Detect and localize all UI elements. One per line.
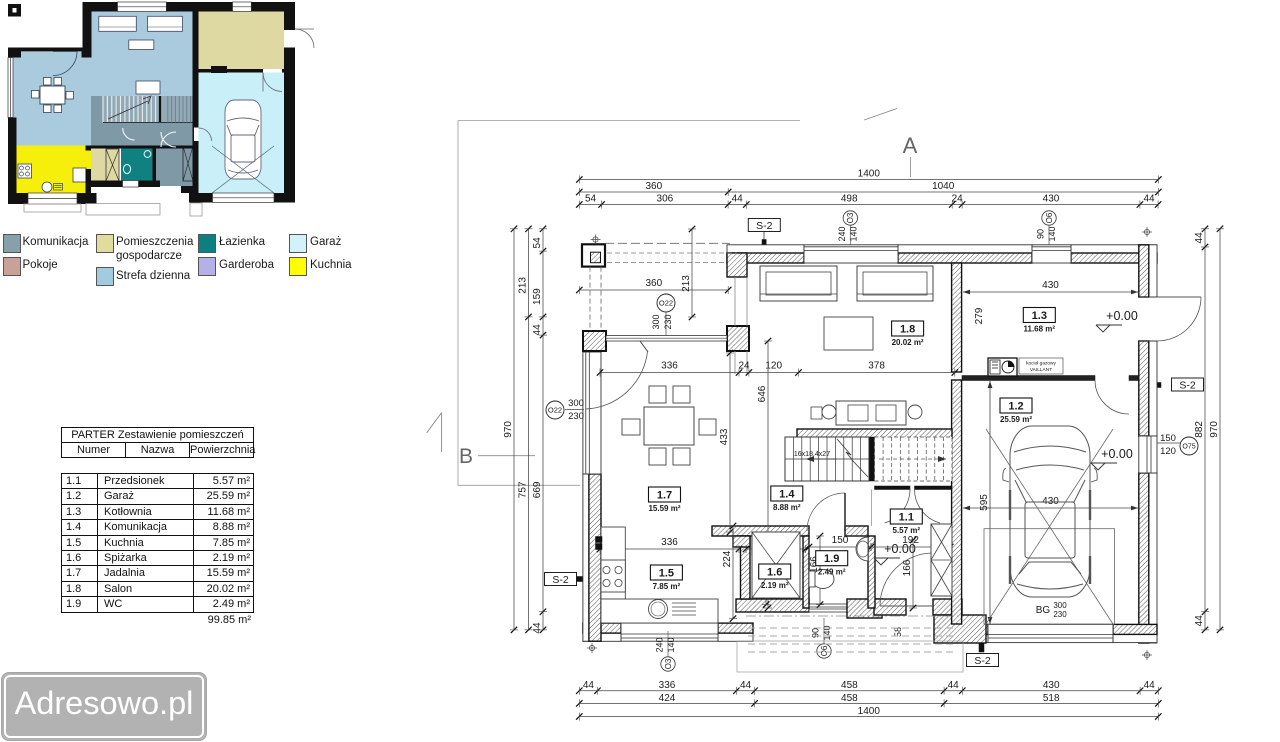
window O22 west jadalnia (583, 352, 601, 474)
svg-text:O22: O22 (659, 299, 673, 308)
jadalnia door leaf+arc (640, 341, 648, 352)
svg-text:15.59 m²: 15.59 m² (648, 504, 680, 513)
spizarka door gap arc (751, 536, 753, 556)
mini pergola post (8, 4, 21, 17)
svg-text:+0.00: +0.00 (1101, 447, 1133, 461)
svg-text:1.4: 1.4 (779, 489, 795, 501)
dimension chain top total 1400 (579, 179, 1158, 181)
svg-text:44: 44 (532, 324, 543, 336)
exterior wall south garage (962, 634, 988, 642)
stove burners (601, 560, 625, 592)
section line B-B (427, 413, 442, 433)
dimension chain bottom detail (579, 690, 1158, 692)
window label O22 north jadalnia (657, 294, 675, 312)
room label 1.3 Kotlownia (1023, 308, 1055, 323)
svg-text:+0.00: +0.00 (1106, 309, 1138, 323)
room label 1.4 Komunikacja (771, 486, 803, 501)
dimension chain left 213/757 (528, 229, 530, 630)
room label 1.5 Kuchnia (650, 565, 682, 580)
section marker S-2 right (1172, 378, 1204, 391)
wall kitchen/spizarka (741, 536, 751, 599)
mini wall south spizarka/lazienka (91, 181, 160, 188)
dim jadalnia 360 (579, 289, 728, 291)
dimension chain top detail (579, 204, 1158, 206)
mini: lazienka fixtures (123, 164, 130, 173)
dim kitchen 336 (600, 548, 739, 550)
mini door kotlownia east arc (295, 29, 314, 48)
dim 433 vertical jadalnia (729, 353, 731, 532)
pergola post mid-right (727, 326, 749, 351)
legend swatch Garaz (289, 234, 307, 253)
kociol label box (1019, 358, 1063, 374)
dim salon chain 336/24/120/378 (600, 372, 955, 374)
exterior wall north east segment (1071, 245, 1157, 253)
mini: furniture sofas salon (99, 16, 137, 31)
mini wall lazienka/przedsionek (153, 148, 157, 182)
room label 1.6 Spizarka (759, 564, 791, 579)
pergola dashed outline (605, 242, 730, 244)
dimension chain left total 970 (513, 229, 515, 630)
mini jadalnia west window (8, 58, 13, 118)
svg-text:230: 230 (568, 411, 584, 422)
mini: kitchen stove (18, 164, 32, 178)
interior wall over spizarka/wc (y526) (712, 526, 809, 536)
svg-text:279: 279 (974, 307, 985, 324)
mini window kotlownia north (233, 2, 252, 12)
mini wall west lower (8, 118, 17, 205)
dimension chain right 44/882/44 (1204, 229, 1206, 630)
svg-text:518: 518 (1043, 693, 1060, 704)
svg-text:44: 44 (1194, 232, 1205, 244)
corner mark bottom-left (589, 645, 594, 650)
window label O6 bottom wc (817, 644, 831, 658)
exterior wall east lower (1149, 473, 1157, 643)
svg-text:44: 44 (948, 680, 960, 691)
window label O6 top (1042, 211, 1056, 225)
dim 166 wc (819, 536, 821, 605)
legend swatch Strefa dzienna (96, 267, 114, 286)
mini: dining table (40, 86, 65, 104)
svg-text:1.5: 1.5 (659, 568, 674, 580)
window O6 wc south (809, 604, 847, 612)
svg-text:213: 213 (518, 277, 529, 294)
legend swatch Garderoba (198, 257, 216, 276)
dim kotlownia 430 (963, 291, 1138, 293)
dim wc 150 (809, 546, 871, 548)
dining table (644, 407, 694, 445)
svg-text:44: 44 (1194, 615, 1205, 627)
mini: room fill kuchnia (17, 146, 92, 194)
mini: car (225, 100, 261, 179)
mini colored floor plan (0, 0, 330, 230)
svg-text:336: 336 (661, 361, 678, 372)
room label 1.7 Jadalnia (649, 487, 681, 502)
svg-text:2.49 m²: 2.49 m² (818, 568, 846, 577)
svg-text:58: 58 (893, 627, 903, 637)
svg-text:306: 306 (657, 194, 674, 205)
interior wall garage west (952, 380, 962, 624)
window label O3 top (843, 211, 857, 225)
svg-text:430: 430 (1042, 280, 1059, 291)
svg-text:378: 378 (868, 361, 885, 372)
svg-text:25.59 m²: 25.59 m² (1000, 415, 1032, 424)
svg-text:150: 150 (832, 535, 849, 546)
mini post jadalnia corners (8, 48, 21, 58)
svg-text:S-2: S-2 (756, 220, 773, 232)
room label 1.2 Garaz (1000, 398, 1032, 413)
mini window south kuchnia (28, 193, 77, 204)
stairs arrow (837, 439, 868, 477)
mini wall salon/kotlownia divider (193, 12, 199, 194)
svg-text:2.19 m²: 2.19 m² (761, 581, 789, 590)
exterior wall north mid segment (898, 245, 1032, 253)
svg-text:166: 166 (902, 559, 913, 576)
spizarka shelving X (752, 532, 800, 598)
svg-text:300: 300 (651, 314, 661, 329)
svg-text:240: 240 (655, 637, 665, 652)
mini: tv unit (136, 81, 160, 94)
sofa 1 salon (760, 266, 837, 301)
exterior wall south kitchen (583, 633, 621, 641)
door kotlownia east: leaf and arc (1157, 296, 1201, 298)
window label O75 garage (1180, 437, 1198, 455)
wall notch block (733, 536, 750, 547)
dim 166 przedsionek (912, 540, 914, 608)
corner mark bottom-right (1144, 652, 1149, 657)
svg-text:498: 498 (841, 194, 858, 205)
back terrace dashes (737, 641, 963, 672)
mini wall kuchnia east bits (86, 146, 92, 151)
svg-text:300: 300 (568, 398, 584, 409)
window/terrace door O3 kitchen south (621, 623, 718, 641)
mini kociol box (211, 66, 227, 73)
svg-text:595: 595 (979, 494, 990, 511)
exterior wall east upper (1149, 245, 1157, 297)
mini: room fill hall komunikacja (91, 96, 193, 148)
wall block spizarka south (736, 599, 809, 612)
svg-text:24: 24 (952, 194, 964, 205)
wall step salon top-left (727, 253, 747, 277)
svg-text:360: 360 (645, 278, 662, 289)
svg-text:970: 970 (503, 421, 514, 438)
stairs right flight (dashed, above cut) (875, 437, 953, 481)
mini: room fill spizarka (91, 148, 120, 182)
kitchen counter left (601, 527, 625, 599)
svg-text:159: 159 (532, 288, 543, 305)
legend swatch Komunikacja (3, 234, 21, 253)
section line A-A (458, 120, 800, 122)
svg-text:230: 230 (663, 314, 673, 329)
window O6 kotlownia north (1032, 245, 1071, 263)
section marker S-2 bottom (967, 654, 999, 667)
mini: room fill przedsionek (156, 148, 194, 187)
interior wall kotlownia/garage (962, 376, 1095, 381)
svg-text:1.2: 1.2 (1008, 401, 1023, 413)
svg-text:430: 430 (1043, 680, 1060, 691)
svg-text:O6: O6 (1045, 212, 1054, 223)
svg-text:1.8: 1.8 (900, 324, 915, 336)
mini wall spizarka top (91, 146, 193, 149)
interior wall salon/kotlownia (952, 263, 962, 372)
stairs divider wall (869, 437, 875, 481)
window O22 north jadalnia (low) (606, 336, 727, 342)
svg-text:360: 360 (645, 181, 662, 192)
dim przedsionek 192 (871, 546, 950, 548)
svg-text:24: 24 (738, 361, 750, 372)
room label 1.8 Salon (892, 321, 924, 336)
svg-text:224: 224 (722, 550, 733, 567)
mini jadalnia top wall (8, 48, 92, 52)
svg-text:54: 54 (585, 194, 597, 205)
porch step block entrance (934, 615, 986, 643)
dimension chain top 360/1040 (579, 191, 1158, 193)
mini: room fill lazienka (121, 148, 153, 181)
svg-text:757: 757 (518, 481, 529, 498)
dimension chain bottom total 1400 (579, 716, 1158, 718)
mini: room fill kotlownia (197, 12, 285, 70)
window O3 salon north (804, 245, 898, 263)
exterior wall east mid (1149, 341, 1157, 436)
svg-text:8.88 m²: 8.88 m² (773, 503, 801, 512)
svg-text:424: 424 (659, 693, 676, 704)
svg-text:430: 430 (1043, 194, 1060, 205)
window label O22 west (546, 401, 564, 419)
dimension chain left detail (542, 229, 544, 630)
mini: garage cross (212, 146, 274, 193)
svg-text:44: 44 (532, 622, 543, 634)
corner mark top-right (1144, 229, 1149, 234)
kitchen counter bottom (601, 599, 718, 623)
legend swatch Pomieszczenia gospodarcze (96, 234, 114, 253)
wc washbasin (856, 537, 868, 561)
dim garage 430 (963, 507, 1138, 509)
svg-text:VAILLANT: VAILLANT (1030, 367, 1052, 373)
svg-text:230: 230 (1053, 610, 1067, 619)
svg-text:44: 44 (740, 680, 752, 691)
mini wall east (284, 2, 295, 30)
svg-text:B: B (459, 445, 473, 468)
garage gate BG in south wall (988, 624, 1113, 642)
dim spizarka 144 (746, 548, 806, 550)
main technical floor plan (420, 90, 1280, 742)
dim 646 vertical hall (767, 341, 769, 608)
wc east wall (868, 536, 875, 608)
mini: stairs (103, 96, 194, 123)
sink (649, 600, 668, 619)
svg-text:A: A (903, 133, 918, 158)
svg-text:1.1: 1.1 (899, 512, 914, 524)
mini wall kotlownia/garage (197, 69, 285, 73)
corner mark top-left post (593, 237, 598, 242)
wall south wc/porch block (847, 599, 882, 618)
sofa 2 salon (857, 266, 933, 301)
przedsionek wardrobe X (931, 524, 952, 596)
svg-text:1.7: 1.7 (657, 490, 672, 502)
dim 224 vertical (732, 526, 734, 619)
mini: room fill strefa dzienna salon (88, 12, 193, 97)
mini door arc hall->jadalnia (123, 128, 135, 140)
svg-text:5.57 m²: 5.57 m² (893, 526, 921, 535)
dim 166 spizarka (765, 536, 767, 605)
mini: kitchen sink (42, 182, 52, 192)
svg-text:S-2: S-2 (974, 655, 991, 667)
wc door leaf+arc (844, 493, 846, 531)
mini: fridge (73, 168, 86, 182)
svg-text:S-2: S-2 (552, 574, 569, 586)
svg-text:O6: O6 (820, 645, 829, 656)
thin lines salon west edge (734, 277, 736, 326)
wall south przedsionek (874, 599, 906, 615)
wc west wall (803, 536, 809, 608)
dimension chain right total 970 (1219, 229, 1221, 630)
mini: coffee table (129, 40, 154, 50)
svg-text:S-2: S-2 (1179, 379, 1196, 391)
wall boxes kitchen (596, 537, 603, 543)
svg-text:646: 646 (757, 385, 768, 402)
mini door gap przedsionek->garaz (194, 128, 199, 142)
svg-text:kocioł gazowy: kocioł gazowy (1026, 361, 1056, 367)
svg-text:240: 240 (837, 226, 847, 241)
mini door arcs przedsionek (161, 132, 176, 147)
mini wall garage south (189, 193, 213, 203)
svg-text:O22: O22 (548, 406, 562, 415)
svg-text:192: 192 (902, 535, 919, 546)
mini: room fill jadalnia (13, 52, 91, 146)
mini: przedsionek wardrobe X (183, 146, 193, 181)
garage parking outline + cross (984, 529, 1115, 624)
mini: spizarka X garderoba (106, 149, 119, 181)
wall above stairs (salon south) (797, 429, 952, 438)
svg-text:1.6: 1.6 (767, 567, 782, 579)
divider line to wall (871, 490, 873, 527)
svg-text:150: 150 (1160, 433, 1176, 444)
svg-text:44: 44 (583, 680, 595, 691)
svg-text:O3: O3 (664, 658, 673, 669)
section marker S-2 left (545, 573, 577, 586)
entrance door przedsionek: leaf+arc (880, 605, 933, 607)
window label O3 bottom (661, 657, 675, 671)
dimension chain bottom 424/458/518 (579, 702, 1158, 704)
svg-text:90: 90 (1036, 229, 1046, 239)
svg-text:11.68 m²: 11.68 m² (1024, 325, 1056, 334)
svg-text:140: 140 (666, 637, 676, 652)
Adresowo.pl logo (1, 672, 207, 741)
mini wall przedsionek south + porch (181, 186, 199, 193)
mini porch lines (86, 204, 160, 216)
wc toilet (812, 570, 834, 589)
svg-text:44: 44 (1143, 194, 1155, 205)
legend swatch Kuchnia (289, 257, 307, 276)
pergola post mid-left (583, 331, 606, 351)
svg-text:1.3: 1.3 (1032, 310, 1047, 322)
dim 595 vertical garage (989, 381, 991, 624)
wall below stairs left (875, 486, 911, 490)
legend swatch Lazienka (198, 234, 216, 253)
dining chairs (649, 386, 666, 403)
svg-text:458: 458 (841, 693, 858, 704)
svg-text:213: 213 (681, 275, 692, 292)
svg-text:90: 90 (811, 628, 821, 638)
exterior wall north salon segment (727, 245, 804, 253)
svg-text:O75: O75 (1182, 444, 1195, 451)
svg-text:54: 54 (532, 237, 543, 249)
double door przedsionek/hall arcs (885, 489, 911, 524)
svg-text:20.02 m²: 20.02 m² (892, 338, 924, 347)
mini wall north (83, 2, 118, 12)
svg-text:1.9: 1.9 (824, 553, 839, 565)
car (1003, 426, 1097, 597)
svg-text:1400: 1400 (858, 169, 881, 180)
svg-text:336: 336 (661, 537, 678, 548)
svg-text:BG: BG (1036, 605, 1051, 616)
pergola post top-left (582, 244, 605, 266)
dim 213 vertical pergola (691, 229, 693, 317)
section marker S-2 top (748, 219, 780, 232)
svg-text:458: 458 (841, 680, 858, 691)
mini: room fill garaz (199, 71, 285, 193)
wall below stairs right (915, 486, 953, 490)
coffee table salon (824, 317, 873, 350)
door kotlownia-garage arc (1095, 380, 1129, 414)
exterior wall west (583, 474, 589, 641)
mini wall salon/jadalnia divider (83, 2, 92, 58)
window O75 garage east (1139, 436, 1157, 473)
svg-text:669: 669 (532, 481, 543, 498)
svg-text:44: 44 (732, 194, 744, 205)
svg-text:1400: 1400 (858, 706, 881, 717)
mini wall south jadalnia/kuchnia (8, 193, 28, 204)
room label 1.1 Przedsionek (890, 509, 922, 524)
mini door gap kotlownia->garaz (263, 69, 282, 73)
svg-text:O3: O3 (846, 212, 855, 223)
stairs left flight (785, 437, 869, 481)
svg-text:336: 336 (659, 680, 676, 691)
svg-text:1040: 1040 (932, 181, 955, 192)
mini garage gate (213, 193, 275, 203)
mini window salon north (118, 2, 167, 12)
svg-text:7.85 m²: 7.85 m² (653, 582, 681, 591)
room label 1.9 WC (816, 551, 848, 566)
svg-text:44: 44 (1144, 680, 1156, 691)
tv unit salon (836, 401, 906, 425)
room table PARTER (61, 427, 254, 628)
kociol gazowy symbol (988, 358, 1017, 376)
svg-text:433: 433 (719, 428, 730, 445)
legend swatch Pokoje (3, 257, 21, 276)
svg-text:300: 300 (1053, 601, 1067, 610)
mini door arc jadalnia (53, 52, 77, 76)
svg-text:970: 970 (1209, 421, 1220, 438)
svg-text:882: 882 (1194, 421, 1205, 438)
mini window south wc (123, 181, 139, 188)
svg-text:120: 120 (1160, 446, 1176, 457)
